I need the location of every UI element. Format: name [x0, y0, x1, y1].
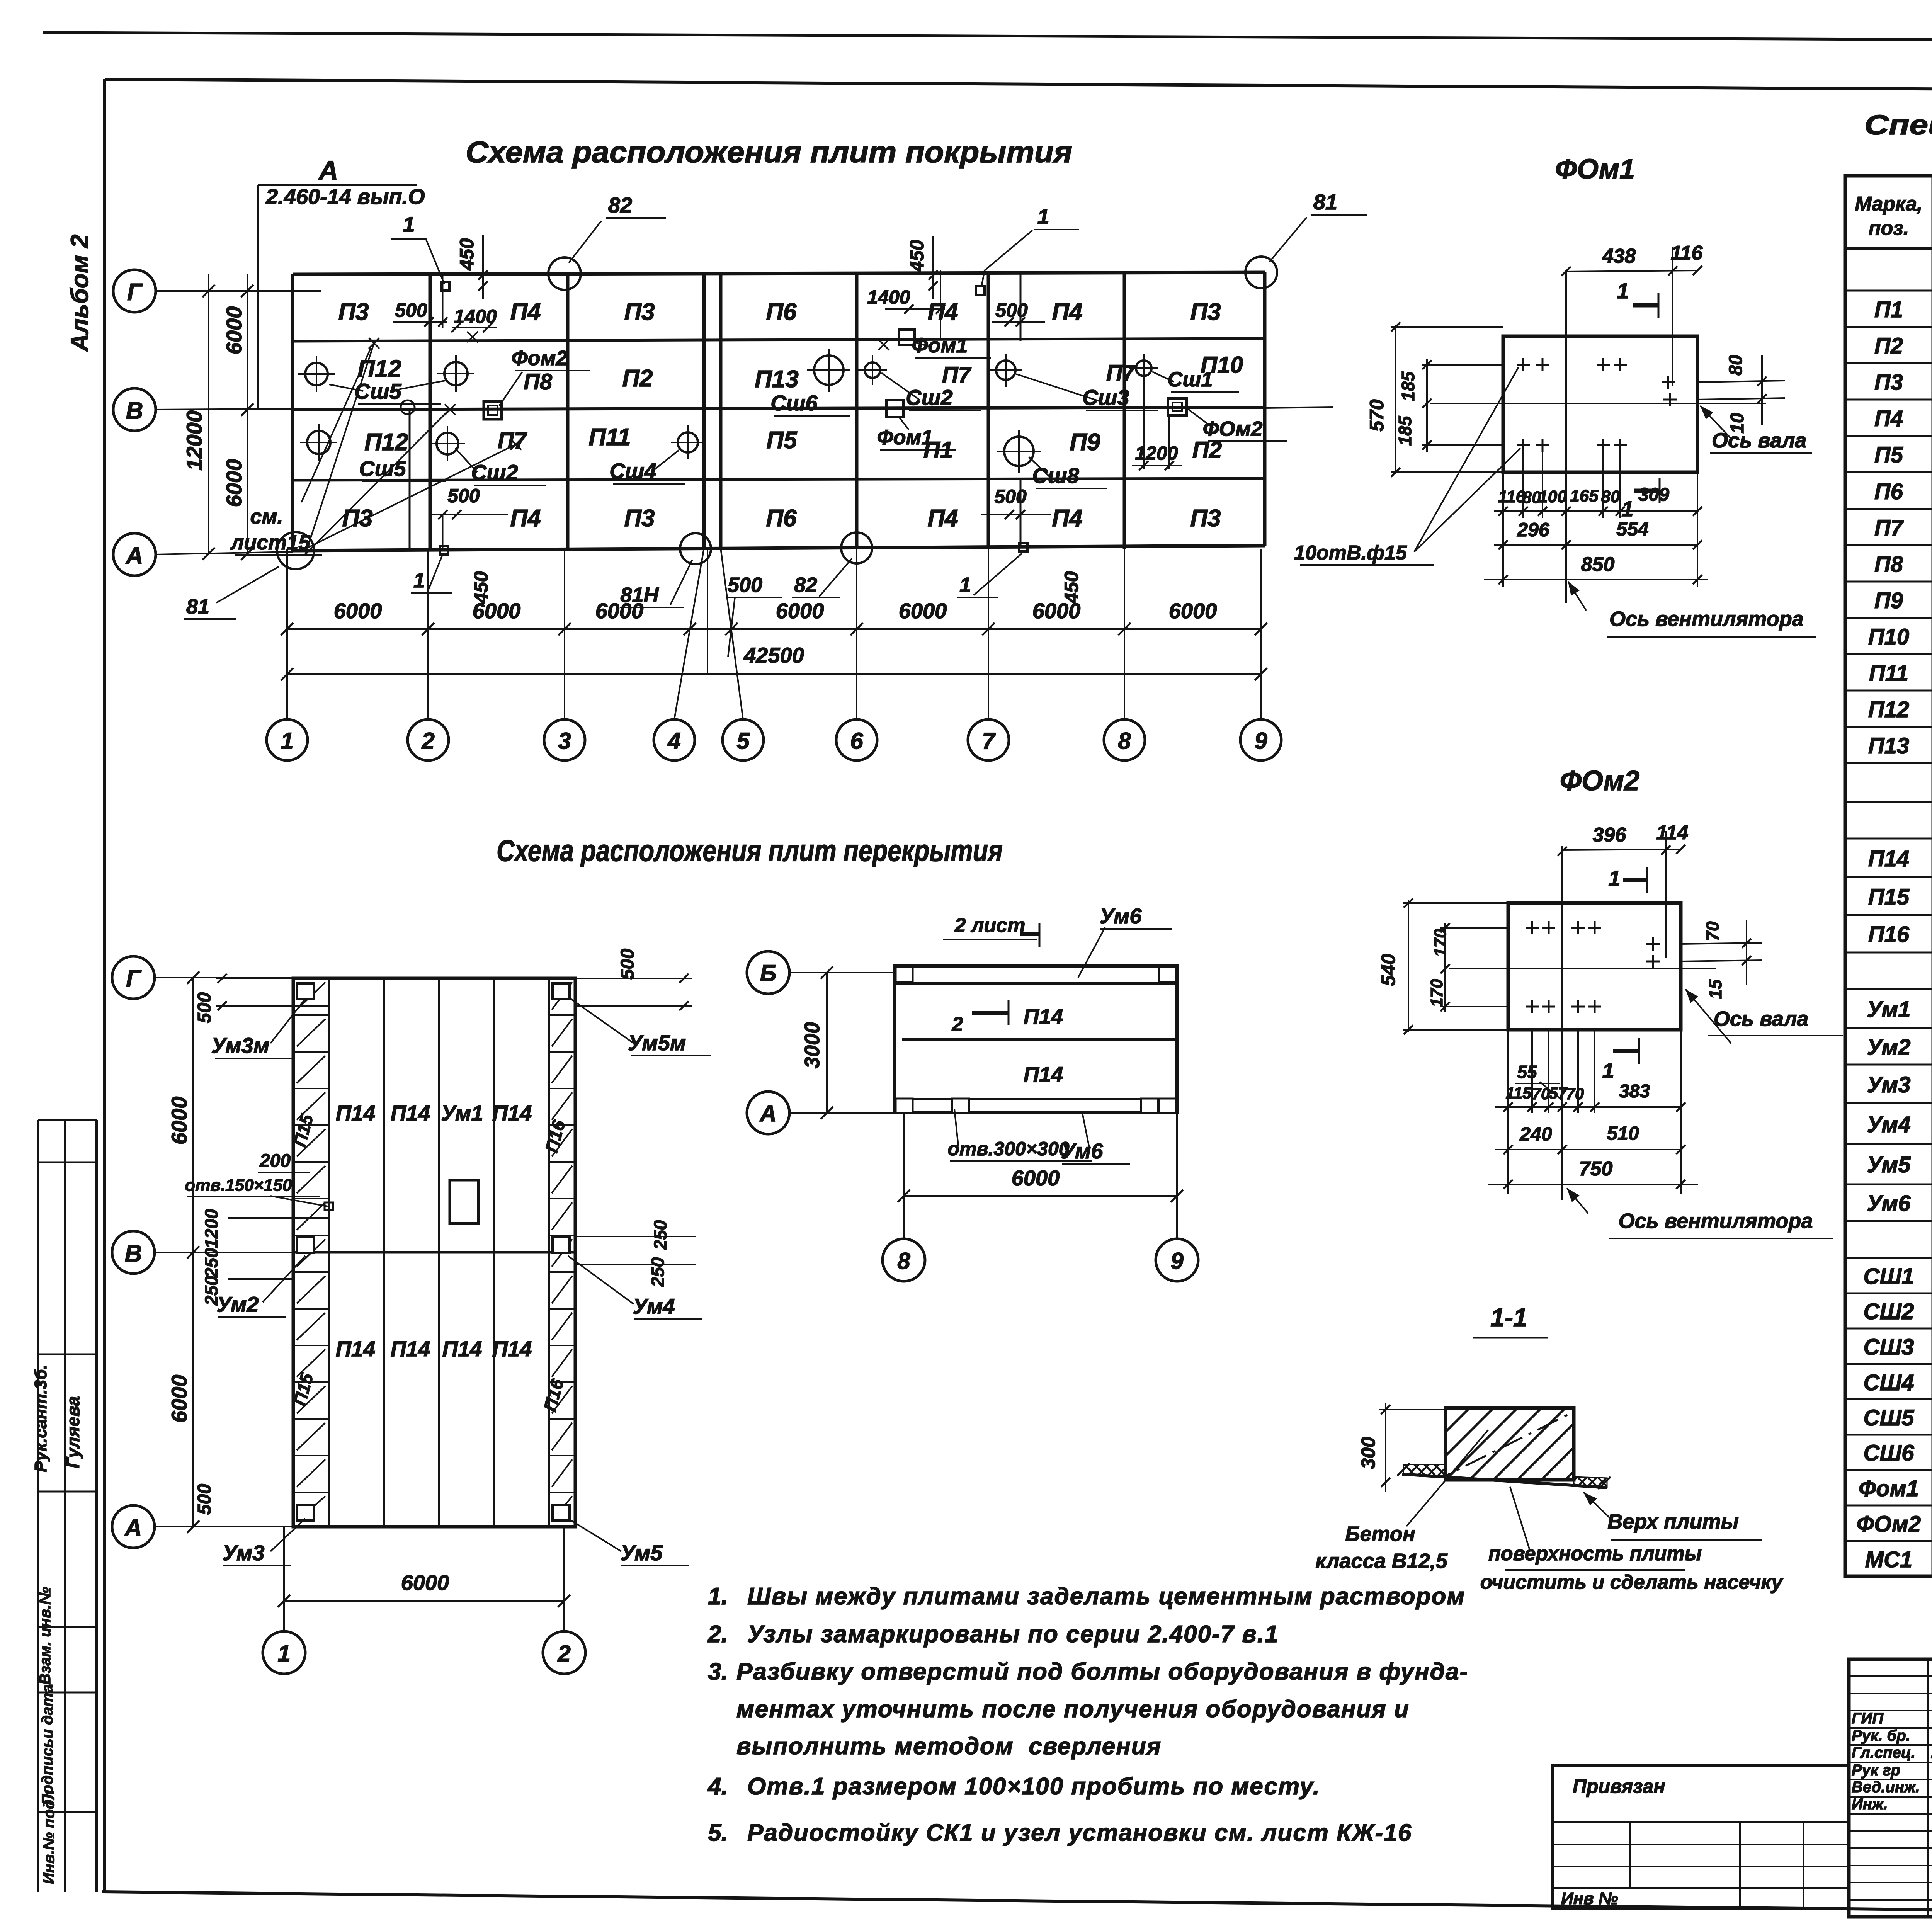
svg-text:Ум1: Ум1 [441, 1101, 483, 1125]
svg-text:9: 9 [1254, 728, 1267, 754]
svg-text:П9: П9 [1070, 429, 1100, 456]
svg-text:Ум2: Ум2 [216, 1292, 259, 1316]
svg-text:очистить и сделать насечку: очистить и сделать насечку [1480, 1571, 1784, 1594]
svg-text:100: 100 [1538, 487, 1567, 506]
svg-text:165: 165 [1570, 486, 1599, 505]
svg-text:Ум3: Ум3 [1867, 1072, 1911, 1097]
svg-text:П3: П3 [1874, 370, 1903, 395]
svg-text:П14: П14 [1024, 1062, 1063, 1087]
svg-text:П4: П4 [927, 299, 958, 325]
svg-text:П8: П8 [1874, 552, 1903, 577]
svg-text:10отВ.ф15: 10отВ.ф15 [1294, 542, 1407, 564]
svg-text:П14: П14 [1024, 1004, 1063, 1029]
svg-text:6000: 6000 [334, 599, 382, 623]
svg-text:отв.300×300: отв.300×300 [947, 1138, 1069, 1160]
svg-text:15: 15 [1705, 979, 1725, 999]
svg-text:П5: П5 [766, 427, 798, 454]
svg-text:СШ3: СШ3 [1864, 1335, 1914, 1360]
svg-text:500: 500 [995, 299, 1028, 321]
svg-text:П6: П6 [766, 505, 797, 532]
svg-text:2.460-14 вып.О: 2.460-14 вып.О [265, 184, 425, 209]
svg-text:П2: П2 [1874, 333, 1903, 359]
svg-text:Инв.№ подл: Инв.№ подл [41, 1790, 58, 1884]
svg-text:В: В [125, 1240, 142, 1267]
svg-text:П3: П3 [624, 505, 655, 532]
svg-text:170: 170 [1427, 979, 1446, 1007]
svg-text:6000: 6000 [1169, 599, 1217, 623]
svg-text:ФОм1: ФОм1 [1555, 154, 1635, 185]
svg-text:П9: П9 [1874, 588, 1903, 613]
svg-text:Спецификация к схеме расположе: Спецификация к схеме расположения плит [1864, 110, 1932, 141]
svg-text:Ум5м: Ум5м [628, 1031, 686, 1055]
svg-text:П1: П1 [1874, 297, 1903, 322]
svg-text:П12: П12 [1868, 697, 1909, 722]
svg-text:Б: Б [760, 960, 776, 986]
svg-text:250: 250 [648, 1257, 668, 1287]
svg-text:Подписьи дата: Подписьи дата [39, 1684, 56, 1805]
svg-text:П3: П3 [1190, 299, 1221, 325]
svg-text:500: 500 [447, 485, 480, 507]
svg-text:СШ5: СШ5 [1864, 1405, 1915, 1430]
svg-text:2: 2 [952, 1013, 963, 1036]
svg-text:116: 116 [1498, 487, 1526, 506]
svg-text:Рук.сант.3б.: Рук.сант.3б. [31, 1364, 50, 1472]
svg-text:Ум6: Ум6 [1099, 904, 1142, 928]
svg-text:2.: 2. [707, 1621, 728, 1648]
svg-text:6000: 6000 [222, 459, 246, 507]
svg-text:170: 170 [1431, 929, 1450, 957]
svg-text:П3: П3 [1190, 505, 1221, 532]
svg-text:П6: П6 [766, 299, 797, 325]
svg-text:см.: см. [250, 505, 283, 528]
svg-text:П7: П7 [1106, 361, 1136, 386]
svg-text:Фом2: Фом2 [511, 347, 567, 370]
svg-text:9: 9 [1170, 1248, 1184, 1274]
svg-text:П4: П4 [1052, 299, 1082, 325]
svg-text:П14: П14 [336, 1101, 376, 1125]
svg-text:570: 570 [1366, 399, 1388, 432]
svg-text:438: 438 [1602, 245, 1636, 267]
svg-text:114: 114 [1656, 821, 1689, 844]
svg-text:Узлы замаркированы по серии 2.: Узлы замаркированы по серии 2.400-7 в.1 [747, 1621, 1279, 1648]
svg-text:185: 185 [1398, 371, 1418, 401]
svg-text:4: 4 [667, 728, 680, 754]
svg-text:П15: П15 [1868, 884, 1910, 910]
svg-text:1: 1 [1602, 1058, 1614, 1083]
svg-text:А: А [318, 155, 338, 185]
svg-text:55: 55 [1517, 1062, 1537, 1082]
svg-text:Г: Г [127, 279, 143, 306]
svg-text:Бетон: Бетон [1345, 1522, 1415, 1546]
svg-text:500: 500 [994, 486, 1027, 507]
svg-text:Вед.инж.: Вед.инж. [1852, 1779, 1920, 1796]
svg-text:Швы между плитами заделать цем: Швы между плитами заделать цементным рас… [747, 1583, 1465, 1610]
svg-text:Фом1: Фом1 [1859, 1476, 1919, 1501]
svg-text:116: 116 [1671, 242, 1703, 264]
svg-text:П4: П4 [510, 505, 541, 532]
svg-text:1: 1 [1617, 279, 1629, 303]
svg-text:П1: П1 [923, 437, 953, 463]
svg-text:70: 70 [1566, 1085, 1584, 1103]
svg-text:8: 8 [1118, 728, 1131, 754]
svg-text:П14: П14 [492, 1337, 532, 1361]
svg-text:Ось вентилятора: Ось вентилятора [1619, 1209, 1813, 1233]
svg-text:ФОм2: ФОм2 [1203, 417, 1263, 440]
svg-text:7: 7 [982, 728, 996, 754]
svg-text:Схема расположения плит перекр: Схема расположения плит перекрытия [497, 833, 1003, 867]
svg-text:1: 1 [959, 573, 971, 597]
svg-text:П7: П7 [942, 362, 972, 388]
svg-text:П3: П3 [338, 299, 369, 325]
svg-text:1: 1 [1037, 204, 1049, 229]
svg-text:Верх плиты: Верх плиты [1607, 1510, 1738, 1533]
svg-text:П11: П11 [589, 424, 631, 451]
svg-text:80: 80 [1726, 355, 1746, 376]
svg-text:Отв.1 размером 100×100 пробить: Отв.1 размером 100×100 пробить по месту. [747, 1773, 1320, 1800]
svg-text:Ум6: Ум6 [1867, 1191, 1911, 1216]
svg-text:80: 80 [1601, 487, 1620, 506]
svg-text:81: 81 [186, 595, 209, 618]
svg-text:ФОм2: ФОм2 [1560, 765, 1639, 796]
svg-text:П14: П14 [442, 1337, 482, 1361]
svg-text:А: А [124, 1515, 142, 1541]
svg-text:Радиостойку СК1 и узел установ: Радиостойку СК1 и узел установки см. лис… [747, 1820, 1412, 1846]
svg-text:42500: 42500 [743, 643, 804, 667]
svg-text:500: 500 [617, 949, 638, 980]
svg-text:Ум2: Ум2 [1867, 1035, 1911, 1060]
svg-text:12000: 12000 [182, 410, 206, 471]
svg-text:200: 200 [259, 1151, 291, 1171]
svg-text:П10: П10 [1201, 352, 1243, 378]
svg-text:1200: 1200 [1135, 442, 1178, 464]
svg-text:250: 250 [650, 1220, 670, 1250]
svg-text:500: 500 [194, 1484, 215, 1515]
svg-text:П13: П13 [1868, 733, 1909, 759]
svg-text:П4: П4 [1052, 505, 1082, 532]
svg-text:450: 450 [906, 240, 928, 272]
svg-text:ФОм2: ФОм2 [1857, 1512, 1921, 1537]
svg-text:1: 1 [281, 728, 293, 754]
svg-text:1: 1 [403, 212, 415, 236]
svg-text:поз.: поз. [1869, 217, 1909, 240]
svg-text:класса В12,5: класса В12,5 [1315, 1549, 1448, 1573]
svg-text:Сш2: Сш2 [906, 385, 952, 410]
svg-text:6000: 6000 [776, 599, 824, 623]
svg-text:Ум5: Ум5 [1867, 1152, 1911, 1177]
svg-text:450: 450 [456, 238, 478, 271]
svg-text:Взам. инв.№: Взам. инв.№ [37, 1587, 54, 1685]
svg-text:П13: П13 [755, 366, 799, 393]
svg-text:П10: П10 [1868, 624, 1909, 650]
svg-text:3000: 3000 [801, 1022, 824, 1068]
svg-text:5: 5 [736, 728, 750, 754]
svg-text:Ось вентилятора: Ось вентилятора [1609, 607, 1804, 631]
svg-text:1-1: 1-1 [1490, 1303, 1527, 1332]
svg-text:Ось вала: Ось вала [1712, 429, 1806, 452]
svg-text:лист15: лист15 [230, 531, 311, 554]
svg-text:П14: П14 [1868, 846, 1909, 871]
svg-text:6000: 6000 [899, 599, 947, 623]
svg-text:Инж.: Инж. [1852, 1796, 1888, 1813]
svg-text:850: 850 [1581, 553, 1615, 576]
svg-text:57: 57 [1549, 1084, 1568, 1102]
svg-text:Ум3м: Ум3м [211, 1033, 270, 1058]
svg-text:выполнить методом сверления: выполнить методом сверления [736, 1733, 1162, 1760]
svg-text:1: 1 [1608, 866, 1620, 890]
svg-text:В: В [126, 398, 143, 424]
svg-text:70: 70 [1532, 1085, 1550, 1103]
svg-text:поверхность плиты: поверхность плиты [1488, 1543, 1702, 1565]
svg-text:81: 81 [1313, 190, 1337, 214]
svg-text:СШ6: СШ6 [1864, 1440, 1915, 1466]
svg-text:500: 500 [194, 992, 215, 1023]
svg-text:6000: 6000 [401, 1570, 449, 1595]
svg-text:Привязан: Привязан [1573, 1776, 1665, 1797]
svg-text:МС1: МС1 [1865, 1547, 1912, 1572]
svg-text:Гл.спец.: Гл.спец. [1852, 1744, 1915, 1761]
svg-text:2 лист: 2 лист [954, 914, 1026, 937]
svg-text:Фом1: Фом1 [912, 334, 968, 357]
svg-text:А: А [125, 543, 143, 569]
svg-text:5.: 5. [708, 1820, 728, 1846]
svg-text:Ум4: Ум4 [1867, 1112, 1911, 1137]
svg-text:296: 296 [1517, 519, 1550, 541]
svg-text:500: 500 [395, 299, 427, 321]
svg-text:540: 540 [1378, 954, 1399, 986]
svg-text:отв.150×150: отв.150×150 [185, 1176, 292, 1195]
svg-text:396: 396 [1593, 824, 1627, 846]
svg-text:250: 250 [201, 1248, 221, 1278]
svg-text:2: 2 [421, 728, 434, 754]
svg-text:1400: 1400 [867, 286, 910, 308]
svg-text:Рук гр: Рук гр [1852, 1762, 1900, 1779]
svg-text:СШ1: СШ1 [1864, 1264, 1914, 1289]
svg-text:П14: П14 [391, 1337, 430, 1361]
svg-text:Ум3: Ум3 [222, 1541, 264, 1565]
svg-text:П11: П11 [1869, 661, 1908, 686]
svg-text:Сш6: Сш6 [770, 391, 818, 415]
svg-text:Рук. бр.: Рук. бр. [1852, 1727, 1910, 1744]
svg-text:Альбом 2: Альбом 2 [66, 235, 94, 352]
svg-text:1: 1 [277, 1641, 290, 1667]
svg-text:СШ4: СШ4 [1864, 1370, 1914, 1395]
svg-text:450: 450 [1061, 571, 1082, 604]
svg-text:А: А [759, 1100, 776, 1126]
svg-text:6000: 6000 [1012, 1166, 1060, 1190]
svg-text:Ось вала: Ось вала [1714, 1007, 1808, 1031]
svg-text:Ум1: Ум1 [1867, 997, 1911, 1022]
svg-text:П3: П3 [624, 299, 655, 325]
svg-text:П12: П12 [357, 355, 401, 382]
svg-text:П4: П4 [510, 299, 541, 325]
svg-text:500: 500 [728, 573, 762, 597]
svg-text:82: 82 [608, 193, 632, 217]
svg-text:Сш4: Сш4 [609, 459, 656, 483]
svg-text:1.: 1. [708, 1583, 728, 1610]
svg-text:П6: П6 [1874, 479, 1903, 504]
svg-text:70: 70 [1702, 921, 1723, 941]
svg-text:185: 185 [1395, 415, 1415, 446]
svg-text:Г: Г [126, 966, 142, 992]
svg-text:309: 309 [1638, 485, 1669, 505]
svg-text:3: 3 [558, 728, 571, 754]
svg-text:750: 750 [1579, 1158, 1613, 1180]
svg-text:Инв №: Инв № [1561, 1889, 1618, 1908]
svg-text:П7: П7 [1874, 515, 1904, 541]
svg-text:3.: 3. [708, 1658, 728, 1685]
svg-text:П4: П4 [927, 505, 958, 532]
svg-text:П14: П14 [336, 1337, 376, 1361]
svg-text:4.: 4. [707, 1773, 728, 1800]
svg-text:Марка,: Марка, [1855, 193, 1923, 215]
svg-text:П2: П2 [622, 365, 653, 392]
svg-text:1200: 1200 [201, 1209, 221, 1248]
svg-text:81Н: 81Н [620, 583, 659, 607]
svg-text:Разбивку отверстий под болты о: Разбивку отверстий под болты оборудовани… [736, 1658, 1468, 1685]
svg-text:Ум6: Ум6 [1061, 1139, 1103, 1163]
svg-text:6000: 6000 [167, 1097, 191, 1145]
svg-text:300: 300 [1357, 1437, 1379, 1469]
svg-text:8: 8 [897, 1248, 910, 1274]
svg-text:Ум5: Ум5 [620, 1541, 663, 1565]
svg-text:82: 82 [794, 573, 817, 597]
svg-text:П14: П14 [391, 1101, 430, 1125]
svg-text:1: 1 [413, 569, 425, 592]
svg-text:П14: П14 [492, 1101, 532, 1125]
svg-text:П16: П16 [1868, 922, 1910, 947]
svg-text:П8: П8 [524, 369, 553, 395]
svg-text:554: 554 [1616, 518, 1648, 540]
svg-text:ментах уточнить после получени: ментах уточнить после получения оборудов… [736, 1696, 1410, 1723]
svg-text:Схема расположения плит покрыт: Схема расположения плит покрытия [466, 135, 1072, 169]
svg-text:П12: П12 [364, 429, 408, 456]
svg-text:Ум4: Ум4 [633, 1294, 675, 1318]
svg-text:2: 2 [557, 1641, 570, 1667]
svg-text:6000: 6000 [222, 306, 246, 355]
svg-text:510: 510 [1607, 1122, 1639, 1144]
svg-text:Гуляева: Гуляева [63, 1396, 83, 1468]
svg-text:115: 115 [1506, 1084, 1532, 1102]
svg-text:6000: 6000 [167, 1375, 191, 1423]
svg-text:СШ2: СШ2 [1864, 1299, 1914, 1324]
svg-text:П5: П5 [1874, 442, 1903, 468]
svg-text:ГИП: ГИП [1852, 1710, 1884, 1727]
svg-text:П4: П4 [1874, 406, 1903, 431]
svg-text:6: 6 [850, 728, 863, 754]
svg-text:383: 383 [1619, 1081, 1650, 1102]
svg-text:450: 450 [470, 571, 492, 604]
svg-text:240: 240 [1519, 1123, 1552, 1145]
